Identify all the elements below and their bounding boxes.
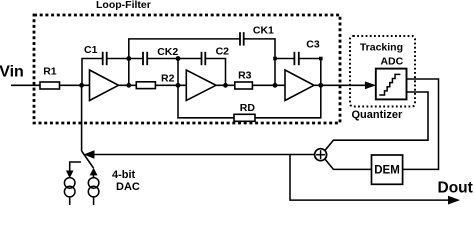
svg-text:DAC: DAC <box>116 181 140 193</box>
svg-text:R3: R3 <box>238 70 252 82</box>
svg-text:RD: RD <box>240 102 256 114</box>
svg-text:Vin: Vin <box>0 63 24 80</box>
svg-text:C1: C1 <box>84 44 98 56</box>
svg-text:4-bit: 4-bit <box>112 169 136 181</box>
svg-text:R1: R1 <box>43 66 57 78</box>
svg-text:CK1: CK1 <box>253 25 274 37</box>
svg-text:C2: C2 <box>216 46 230 58</box>
svg-text:Dout: Dout <box>438 179 473 196</box>
svg-text:DEM: DEM <box>374 165 400 177</box>
svg-text:Loop-Filter: Loop-Filter <box>96 0 151 11</box>
svg-text:Tracking: Tracking <box>360 42 403 54</box>
svg-text:CK2: CK2 <box>157 46 178 58</box>
svg-text:C3: C3 <box>306 39 320 51</box>
svg-text:Quantizer: Quantizer <box>352 109 403 121</box>
svg-text:R2: R2 <box>161 73 175 85</box>
svg-text:ADC: ADC <box>380 56 403 68</box>
